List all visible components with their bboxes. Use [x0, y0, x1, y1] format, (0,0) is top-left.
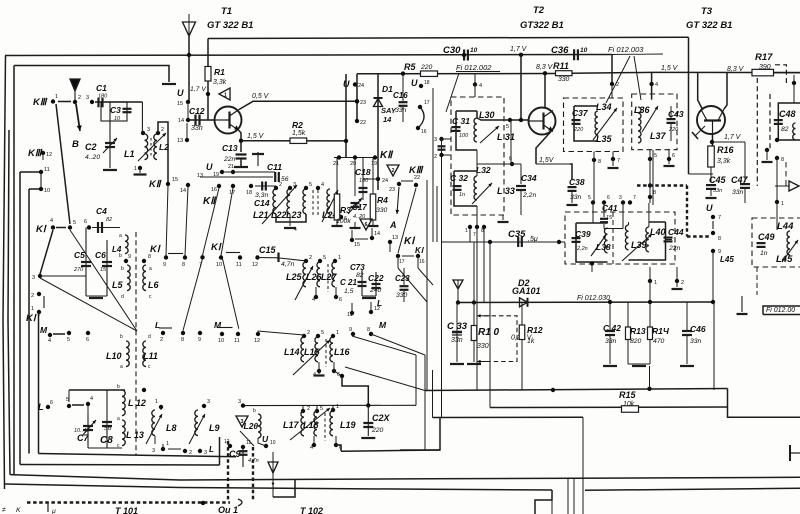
wire R11 to IF box 2 feed [572, 71, 652, 74]
wire verticals x=568 x=574 [567, 479, 569, 514]
svg-text:4,7n: 4,7n [281, 261, 294, 268]
svg-text:11: 11 [246, 440, 251, 446]
loop box C48 L43 [778, 103, 800, 140]
node 24 wire [363, 178, 378, 180]
wire KII15 down to KI9 [166, 186, 168, 256]
node 23 on x357 [355, 99, 359, 103]
heavy dashed AGC to U8 [687, 235, 711, 237]
svg-text:C38: C38 [569, 177, 585, 187]
wire frame vertical x=29 from contact 10 [28, 189, 30, 454]
svg-text:C34: C34 [521, 173, 537, 183]
svg-text:2: 2 [309, 255, 312, 261]
svg-text:L25: L25 [286, 272, 303, 282]
core dashed L15 L16 [325, 339, 327, 367]
ground under C24 [361, 437, 375, 439]
wire riser x=490 [489, 242, 491, 408]
svg-text:33n: 33n [713, 188, 722, 194]
node at 794,83 [792, 81, 796, 85]
svg-text:3: 3 [207, 399, 210, 405]
svg-text:C12: C12 [189, 106, 205, 116]
ground under L2x [289, 222, 291, 226]
svg-text:6: 6 [365, 222, 368, 228]
ground under C33 [450, 363, 464, 365]
svg-text:U: U [706, 203, 713, 213]
svg-text:10: 10 [44, 188, 50, 194]
svg-text:L35: L35 [596, 134, 613, 144]
dashed IF box L36 L37 C43 [632, 94, 677, 150]
svg-text:5: 5 [323, 255, 326, 261]
jumper L row [159, 327, 172, 329]
trimmer box C3 [101, 102, 127, 121]
arrow to A [397, 187, 399, 214]
wire x=713 down from 9 [712, 251, 714, 302]
wire 6 to junction [334, 371, 342, 376]
svg-text:R12: R12 [527, 325, 543, 335]
svg-text:1: 1 [465, 228, 468, 234]
antenna symbol at T1 base [188, 14, 190, 22]
wire frame vertical x=20 from contact 11 [19, 172, 21, 465]
svg-text:C15: C15 [259, 245, 277, 255]
svg-text:8: 8 [367, 327, 370, 333]
svg-text:5: 5 [588, 195, 591, 201]
svg-text:1,5k: 1,5k [292, 130, 306, 137]
label Fi 012.00 box [763, 306, 800, 315]
wire y=73 to R17 and beyond [652, 71, 800, 73]
svg-text:8,3 V: 8,3 V [727, 66, 745, 73]
svg-text:2: 2 [434, 154, 437, 160]
wire from 6 to bottom rail [336, 445, 341, 451]
antenna symbol left ferrite [70, 79, 80, 91]
svg-text:R5: R5 [404, 62, 416, 72]
svg-text:7: 7 [718, 215, 721, 221]
wire x=594 down to contact row [593, 160, 595, 203]
svg-text:Ou 1: Ou 1 [218, 505, 238, 514]
node 13 with stub [185, 138, 189, 142]
svg-text:b: b [119, 253, 122, 259]
svg-text:KⅡ: KⅡ [380, 150, 394, 161]
svg-text:7: 7 [633, 195, 636, 201]
svg-text:R1Ч: R1Ч [652, 326, 670, 336]
svg-text:U: U [411, 78, 418, 88]
wire antenna T1 down to node 15 [188, 36, 190, 102]
wire vertical x=441 column [441, 139, 443, 418]
svg-text:9: 9 [128, 254, 131, 260]
svg-text:T 102: T 102 [300, 506, 323, 514]
svg-text:100k: 100k [336, 218, 351, 225]
heavy dashed bottom line to Ou1 [27, 501, 230, 503]
svg-text:6: 6 [339, 297, 342, 303]
svg-text:3: 3 [32, 275, 35, 281]
svg-text:KⅡ: KⅡ [149, 179, 162, 190]
svg-text:b: b [117, 384, 120, 390]
wire main supply rail y=55 [5, 55, 612, 56]
svg-text:L16: L16 [334, 347, 351, 357]
svg-text:L21: L21 [253, 210, 269, 220]
svg-text:GT322 B1: GT322 B1 [520, 20, 564, 31]
svg-text:M: M [40, 325, 48, 335]
svg-text:2: 2 [78, 95, 81, 101]
svg-text:13: 13 [177, 138, 183, 144]
svg-text:1: 1 [55, 94, 58, 100]
svg-text:C23: C23 [395, 274, 410, 283]
svg-text:16: 16 [211, 187, 217, 193]
svg-text:R4: R4 [377, 195, 388, 205]
contacts 8 7 under box1 [592, 158, 596, 162]
svg-text:470: 470 [653, 338, 665, 345]
test point triangle 6 [360, 219, 372, 230]
wire emitter line 1,5V to R2 [241, 140, 346, 142]
wire emitter y=142 to right [712, 141, 745, 143]
svg-text:8: 8 [781, 157, 784, 163]
svg-text:T1: T1 [221, 6, 232, 17]
row 2 5 1 contacts y=410 [301, 409, 305, 413]
core dashed L26 L27 [327, 264, 329, 292]
wire diode D1 branch x=378 [377, 74, 379, 190]
node 2 at box1 feed [610, 82, 614, 86]
svg-text:1,7 V: 1,7 V [190, 86, 207, 93]
wire 16 down to 7 [203, 188, 220, 255]
svg-text:L: L [209, 445, 214, 454]
node 1 right [775, 200, 779, 204]
svg-text:L19: L19 [340, 420, 356, 430]
bottom contacts 4 6 [312, 443, 316, 447]
wire riser x=432 [432, 370, 434, 418]
jumper loop 17-16 [418, 107, 424, 128]
svg-text:13: 13 [392, 235, 398, 241]
contacts 12 11 row C9 [228, 444, 232, 448]
svg-text:33n: 33n [605, 338, 617, 345]
svg-text:L32: L32 [476, 165, 491, 175]
svg-text:2: 2 [279, 182, 282, 188]
svg-text:R17: R17 [755, 52, 773, 63]
svg-text:17: 17 [399, 259, 405, 265]
svg-text:GT 322 B1: GT 322 B1 [207, 20, 253, 31]
wire L2 to KII 15 [158, 122, 168, 182]
svg-text:R2: R2 [292, 120, 303, 130]
svg-text:C16: C16 [393, 91, 408, 100]
svg-text:L14: L14 [284, 347, 300, 357]
diagonal osc to bus [345, 367, 425, 391]
svg-text:C36: C36 [551, 45, 569, 56]
wire bus line B right segment [585, 488, 800, 490]
svg-text:a: a [120, 364, 123, 370]
svg-text:R11: R11 [553, 61, 569, 71]
dashed box third IF transformer [565, 212, 675, 264]
wire corner x=440 to frame [400, 418, 440, 451]
switch diagonal 7 to 8 [183, 259, 203, 331]
capacitor C24 [366, 403, 370, 407]
svg-text:a: a [119, 233, 122, 239]
wire 1,5V riser x=651 node 4 [651, 72, 653, 99]
bottom contacts 4 6 of L15 [317, 369, 321, 373]
wire x=757 edge vertical [785, 162, 787, 186]
dashed divider in IF box [612, 212, 614, 264]
svg-text:17: 17 [424, 100, 430, 106]
svg-text:330: 330 [396, 292, 408, 299]
svg-text:100: 100 [459, 133, 469, 139]
jumper between contacts 11 and 10 [40, 172, 42, 189]
svg-text:KⅠ: KⅠ [26, 313, 37, 324]
wire corner x=728 down [728, 389, 800, 418]
wire block top rail [69, 389, 125, 391]
svg-text:1: 1 [338, 255, 341, 261]
svg-text:1,5 V: 1,5 V [247, 133, 265, 140]
svg-text:24: 24 [382, 178, 388, 184]
transformer L21 L22 L23 L24 contacts [274, 186, 278, 190]
antenna IF takeoff symbol [453, 280, 463, 289]
svg-text:L37: L37 [650, 131, 667, 141]
svg-text:0,5 V: 0,5 V [252, 93, 270, 100]
node 4 on feed [473, 82, 477, 86]
svg-text:2: 2 [681, 280, 684, 286]
contacts 5 6 under box2 [648, 157, 652, 161]
coil L38 [604, 228, 607, 253]
svg-text:220: 220 [420, 64, 433, 71]
svg-text:a: a [149, 266, 152, 272]
detector line junction dots [608, 300, 612, 304]
wire vertical x=437 [436, 186, 438, 242]
wire left frame vertical x=10 [8, 130, 10, 475]
wire nested frame bottom y=464.5 [20, 464, 220, 467]
svg-text:C73: C73 [350, 263, 365, 272]
svg-text:L: L [38, 402, 44, 412]
heavy dashed AGC line horizontal [637, 184, 687, 186]
svg-text:b: b [120, 334, 123, 340]
svg-text:A: A [389, 220, 397, 230]
svg-text:≠: ≠ [2, 507, 6, 514]
svg-text:2: 2 [307, 330, 310, 336]
ground under C13 [234, 166, 248, 168]
node junction antenna rail [187, 53, 191, 57]
svg-text:L45: L45 [776, 254, 793, 265]
wire riser x=649 from detector [649, 366, 651, 389]
wire KI switch lower stubs [397, 256, 399, 268]
wire KII14 down to KI8 [185, 187, 188, 256]
svg-text:8: 8 [598, 159, 601, 165]
wire T3 collector riser [724, 73, 727, 109]
wire row 330 to L14 block [258, 331, 305, 335]
svg-text:22n: 22n [223, 156, 236, 163]
bottom contacts 4 6 [314, 295, 318, 299]
node 22 on x357 [355, 119, 359, 123]
svg-text:1: 1 [224, 93, 227, 99]
svg-text:L40: L40 [650, 227, 666, 237]
svg-text:GT 322 B1: GT 322 B1 [686, 20, 732, 31]
wire nested frame bottom y=453.5 [39, 454, 237, 457]
svg-text:1: 1 [166, 441, 169, 447]
capacitor C37 loop [574, 106, 598, 141]
svg-text:C2Χ: C2Χ [372, 413, 391, 423]
svg-text:82: 82 [781, 126, 789, 133]
svg-text:1k: 1k [527, 338, 535, 345]
antenna car symbol [268, 462, 278, 473]
svg-text:C17: C17 [352, 203, 367, 212]
wire T1 emitter down to 1,5V node [239, 131, 241, 153]
node 1,7V junction [519, 53, 523, 57]
svg-text:22: 22 [360, 120, 366, 126]
svg-text:μ: μ [51, 508, 56, 514]
svg-text:6: 6 [607, 195, 610, 201]
svg-text:L15: L15 [304, 347, 321, 357]
svg-text:C37: C37 [572, 108, 589, 118]
svg-text:4: 4 [48, 338, 51, 344]
svg-text:L9: L9 [209, 423, 220, 433]
svg-text:C4: C4 [96, 206, 107, 216]
wire inside box y=164 [477, 163, 521, 165]
wire y=302.5 detector line [458, 301, 714, 304]
svg-text:1n: 1n [760, 250, 768, 257]
jumper M row [218, 327, 233, 329]
svg-text:U: U [343, 79, 350, 89]
svg-text:14: 14 [374, 231, 380, 237]
wire y=74 feed line from x=346 [357, 73, 555, 75]
node 14 [186, 118, 190, 122]
wire x=474 down to detector [473, 242, 475, 303]
svg-text:12: 12 [254, 338, 260, 344]
svg-text:U: U [177, 88, 184, 98]
dashed wire x=770 [769, 94, 771, 150]
svg-text:3: 3 [238, 399, 241, 405]
wire vertical x=357 nodes 23 22 [356, 74, 358, 121]
wire C13 to ground [240, 159, 242, 166]
svg-text:4: 4 [655, 82, 658, 88]
svg-text:3: 3 [204, 450, 207, 456]
node 5 and junction on base line [508, 118, 512, 122]
svg-text:a: a [117, 416, 120, 422]
svg-text:82: 82 [356, 272, 364, 279]
svg-text:82: 82 [106, 217, 112, 223]
svg-text:L 13: L 13 [126, 430, 144, 440]
wire y=172 stub [222, 171, 275, 173]
wire bottoms of L21-23 to ground [276, 214, 306, 222]
grounds under R3 C17 R4 [336, 220, 338, 225]
ground right lower [741, 296, 743, 312]
svg-text:3,3k: 3,3k [213, 79, 227, 86]
svg-text:20: 20 [350, 161, 356, 167]
core dashed L23 L24 [312, 190, 314, 216]
svg-text:2: 2 [307, 406, 310, 412]
wire riser x=416 [415, 355, 417, 405]
wire riser x=425 [424, 355, 426, 450]
svg-text:15: 15 [100, 267, 107, 273]
leader line Fi 012.002 to box [446, 73, 459, 112]
svg-text:L: L [377, 298, 382, 308]
svg-text:4: 4 [479, 83, 482, 89]
wire R1 branch vertical x=208 [207, 39, 209, 67]
svg-text:2: 2 [161, 127, 164, 133]
connector hook Ou1 [238, 499, 242, 506]
resistor R13 [627, 302, 629, 327]
svg-text:9: 9 [198, 337, 201, 343]
transistor T3 [697, 106, 725, 134]
svg-text:C44: C44 [668, 227, 684, 237]
svg-text:C43: C43 [668, 109, 684, 119]
svg-text:5: 5 [321, 330, 324, 336]
wire node5 to node6 [510, 120, 512, 164]
svg-text:KⅠ: KⅠ [211, 242, 222, 253]
svg-text:C 31: C 31 [452, 116, 470, 126]
svg-text:14: 14 [180, 188, 186, 194]
resistor R1 [205, 67, 211, 82]
svg-text:13: 13 [197, 173, 203, 179]
wire T1 collector to 0,5V line [239, 101, 357, 109]
ground under C2 [103, 169, 117, 171]
node 6 inside box [510, 162, 514, 166]
svg-text:L1: L1 [124, 149, 135, 159]
svg-text:L36: L36 [634, 105, 651, 115]
svg-text:5: 5 [654, 153, 657, 159]
svg-text:C14: C14 [254, 198, 270, 208]
svg-text:C 32: C 32 [450, 173, 468, 183]
svg-text:5: 5 [309, 182, 312, 188]
node 2 with ground [675, 279, 679, 283]
svg-text:C2: C2 [85, 142, 97, 152]
wire box1 feed riser x=612 [611, 55, 613, 85]
svg-text:L6: L6 [148, 280, 159, 290]
svg-text:R1 0: R1 0 [478, 327, 500, 338]
svg-text:L27: L27 [321, 272, 338, 282]
svg-text:2: 2 [392, 168, 395, 174]
contact 3 on row [241, 403, 245, 407]
ground below box right [502, 215, 504, 220]
switch diagonal 10 to 11 [223, 259, 239, 329]
row bus y=405.5 [243, 404, 416, 406]
svg-text:K: K [16, 507, 21, 514]
svg-text:14: 14 [178, 118, 184, 124]
svg-text:L30: L30 [479, 110, 495, 120]
svg-text:L2θ: L2θ [244, 421, 259, 431]
svg-text:C1: C1 [96, 83, 107, 93]
ground under R10 [467, 363, 481, 365]
capacitor C31 loop [456, 111, 477, 150]
variable inductor L8 [159, 405, 163, 409]
svg-text:KⅡ: KⅡ [203, 196, 217, 207]
svg-text:4: 4 [50, 218, 53, 224]
svg-text:22: 22 [414, 175, 420, 181]
heavy dashed shielded cable left [227, 441, 229, 502]
svg-text:L 12: L 12 [128, 398, 146, 408]
svg-text:KⅢ: KⅢ [33, 97, 48, 108]
svg-text:16: 16 [421, 129, 427, 135]
svg-text:33n: 33n [451, 337, 463, 344]
test point triangle 1 [219, 88, 230, 100]
svg-text:24: 24 [358, 83, 364, 89]
svg-text:L10: L10 [106, 351, 122, 361]
wire R16 bottom junction y=174 [689, 173, 714, 175]
svg-text:L8: L8 [166, 423, 177, 433]
ground under R13 R14 [628, 363, 650, 365]
svg-text:17: 17 [229, 190, 235, 196]
svg-text:Fi 012.002: Fi 012.002 [456, 63, 492, 72]
svg-text:15: 15 [354, 242, 360, 248]
svg-text:2,2n: 2,2n [522, 192, 536, 199]
variable inductor L9 [202, 404, 206, 408]
svg-text:15: 15 [172, 177, 178, 183]
svg-text:10: 10 [216, 262, 222, 268]
transformer L25 L26 L27 contacts [304, 259, 308, 263]
transistor T2 [529, 108, 556, 135]
svg-text:M: M [379, 320, 387, 330]
wire x=714 long vertical [713, 302, 715, 390]
switch wiper long diagonal [56, 104, 70, 224]
resistor R16 [708, 146, 715, 167]
svg-text:10: 10 [580, 47, 588, 54]
svg-text:12: 12 [252, 262, 258, 268]
svg-text:14: 14 [383, 115, 392, 124]
svg-text:2: 2 [31, 293, 34, 299]
ground under C21 C22 [362, 295, 376, 297]
node R1 base junction [206, 92, 210, 96]
